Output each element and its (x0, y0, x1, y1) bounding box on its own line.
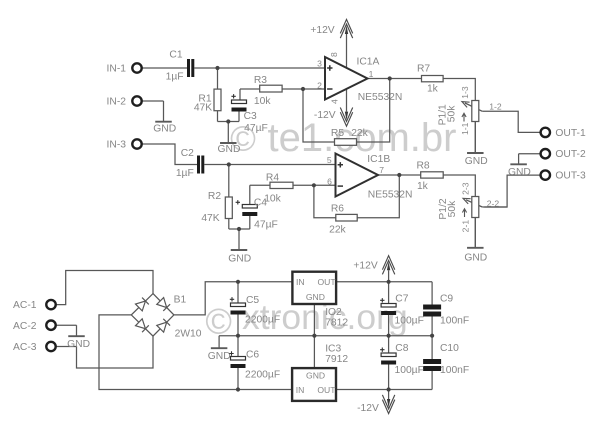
svg-text:2-2: 2-2 (487, 198, 500, 208)
svg-text:1µF: 1µF (166, 72, 184, 83)
svg-text:R5: R5 (331, 128, 344, 139)
svg-text:IN: IN (296, 277, 305, 287)
svg-text:GND: GND (465, 156, 488, 167)
svg-text:C2: C2 (181, 148, 194, 159)
svg-text:R6: R6 (331, 204, 344, 215)
svg-text:IN-2: IN-2 (107, 97, 127, 108)
svg-text:C3: C3 (244, 111, 257, 122)
svg-text:1-3: 1-3 (460, 86, 470, 99)
svg-text:8: 8 (329, 52, 339, 57)
svg-text:100µF: 100µF (395, 365, 424, 376)
svg-text:100nF: 100nF (440, 315, 469, 326)
svg-text:2W10: 2W10 (175, 329, 202, 340)
svg-text:OUT: OUT (317, 385, 336, 395)
svg-text:NE5532N: NE5532N (358, 92, 403, 103)
svg-text:3: 3 (317, 59, 322, 69)
svg-text:C5: C5 (246, 295, 259, 306)
svg-text:4: 4 (329, 99, 339, 104)
svg-text:2: 2 (317, 80, 322, 90)
svg-text:GND: GND (208, 351, 231, 362)
svg-text:6: 6 (327, 177, 332, 187)
svg-text:GND: GND (228, 254, 251, 265)
svg-text:1-2: 1-2 (489, 101, 502, 111)
svg-text:47K: 47K (201, 213, 219, 224)
svg-text:IC1B: IC1B (367, 154, 390, 165)
svg-text:10k: 10k (254, 96, 271, 107)
svg-text:C7: C7 (395, 294, 408, 305)
svg-text:OUT-1: OUT-1 (555, 128, 586, 139)
svg-text:+12V: +12V (310, 25, 334, 36)
svg-text:47K: 47K (194, 103, 212, 114)
svg-text:AC-1: AC-1 (13, 300, 37, 311)
svg-text:IN-3: IN-3 (107, 140, 127, 151)
svg-text:47µF: 47µF (244, 123, 268, 134)
svg-text:GND: GND (306, 370, 325, 380)
svg-text:10k: 10k (264, 194, 281, 205)
svg-text:7: 7 (379, 165, 384, 175)
svg-text:50k: 50k (447, 200, 458, 217)
svg-text:1µF: 1µF (176, 168, 194, 179)
svg-text:OUT-3: OUT-3 (555, 171, 586, 182)
svg-text:100µF: 100µF (395, 315, 424, 326)
svg-text:GND: GND (67, 339, 90, 350)
svg-text:R3: R3 (254, 75, 267, 86)
svg-text:1: 1 (369, 69, 374, 79)
svg-text:C1: C1 (169, 50, 182, 61)
svg-text:GND: GND (218, 144, 241, 155)
svg-text:C8: C8 (395, 343, 408, 354)
svg-text:100nF: 100nF (440, 365, 469, 376)
svg-text:1k: 1k (427, 83, 439, 94)
svg-text:2-1: 2-1 (461, 220, 471, 233)
svg-text:GND: GND (153, 124, 176, 135)
svg-text:+12V: +12V (353, 261, 377, 272)
svg-text:GND: GND (464, 252, 487, 263)
svg-text:7812: 7812 (325, 317, 348, 328)
svg-text:AC-2: AC-2 (13, 321, 37, 332)
svg-text:GND: GND (508, 167, 531, 178)
svg-text:C9: C9 (440, 294, 453, 305)
svg-text:1-1: 1-1 (460, 122, 470, 135)
svg-text:B1: B1 (174, 294, 187, 305)
svg-text:22k: 22k (329, 224, 346, 235)
svg-text:OUT: OUT (317, 277, 336, 287)
svg-text:IO2: IO2 (325, 307, 342, 318)
svg-text:-12V: -12V (314, 110, 336, 121)
svg-text:2200µF: 2200µF (245, 314, 280, 325)
svg-text:IN-1: IN-1 (107, 64, 127, 75)
svg-text:-12V: -12V (357, 403, 379, 414)
svg-text:GND: GND (306, 292, 325, 302)
svg-text:AC-3: AC-3 (13, 342, 37, 353)
svg-text:R2: R2 (208, 191, 221, 202)
svg-text:IN: IN (296, 385, 305, 395)
svg-text:R4: R4 (266, 173, 279, 184)
svg-text:IC1A: IC1A (357, 56, 380, 67)
svg-text:R7: R7 (417, 64, 430, 75)
svg-text:7912: 7912 (325, 354, 348, 365)
svg-text:C10: C10 (440, 343, 459, 354)
svg-text:2-3: 2-3 (461, 182, 471, 195)
svg-text:NE5532N: NE5532N (368, 190, 413, 201)
svg-text:R8: R8 (417, 161, 430, 172)
svg-text:C6: C6 (246, 349, 259, 360)
svg-text:OUT-2: OUT-2 (555, 149, 586, 160)
svg-text:5: 5 (327, 155, 332, 165)
svg-text:22k: 22k (351, 128, 368, 139)
svg-text:IC3: IC3 (325, 344, 341, 355)
svg-text:2200µF: 2200µF (245, 369, 280, 380)
svg-text:47µF: 47µF (254, 219, 278, 230)
svg-text:1k: 1k (417, 181, 429, 192)
svg-text:50k: 50k (446, 105, 457, 122)
